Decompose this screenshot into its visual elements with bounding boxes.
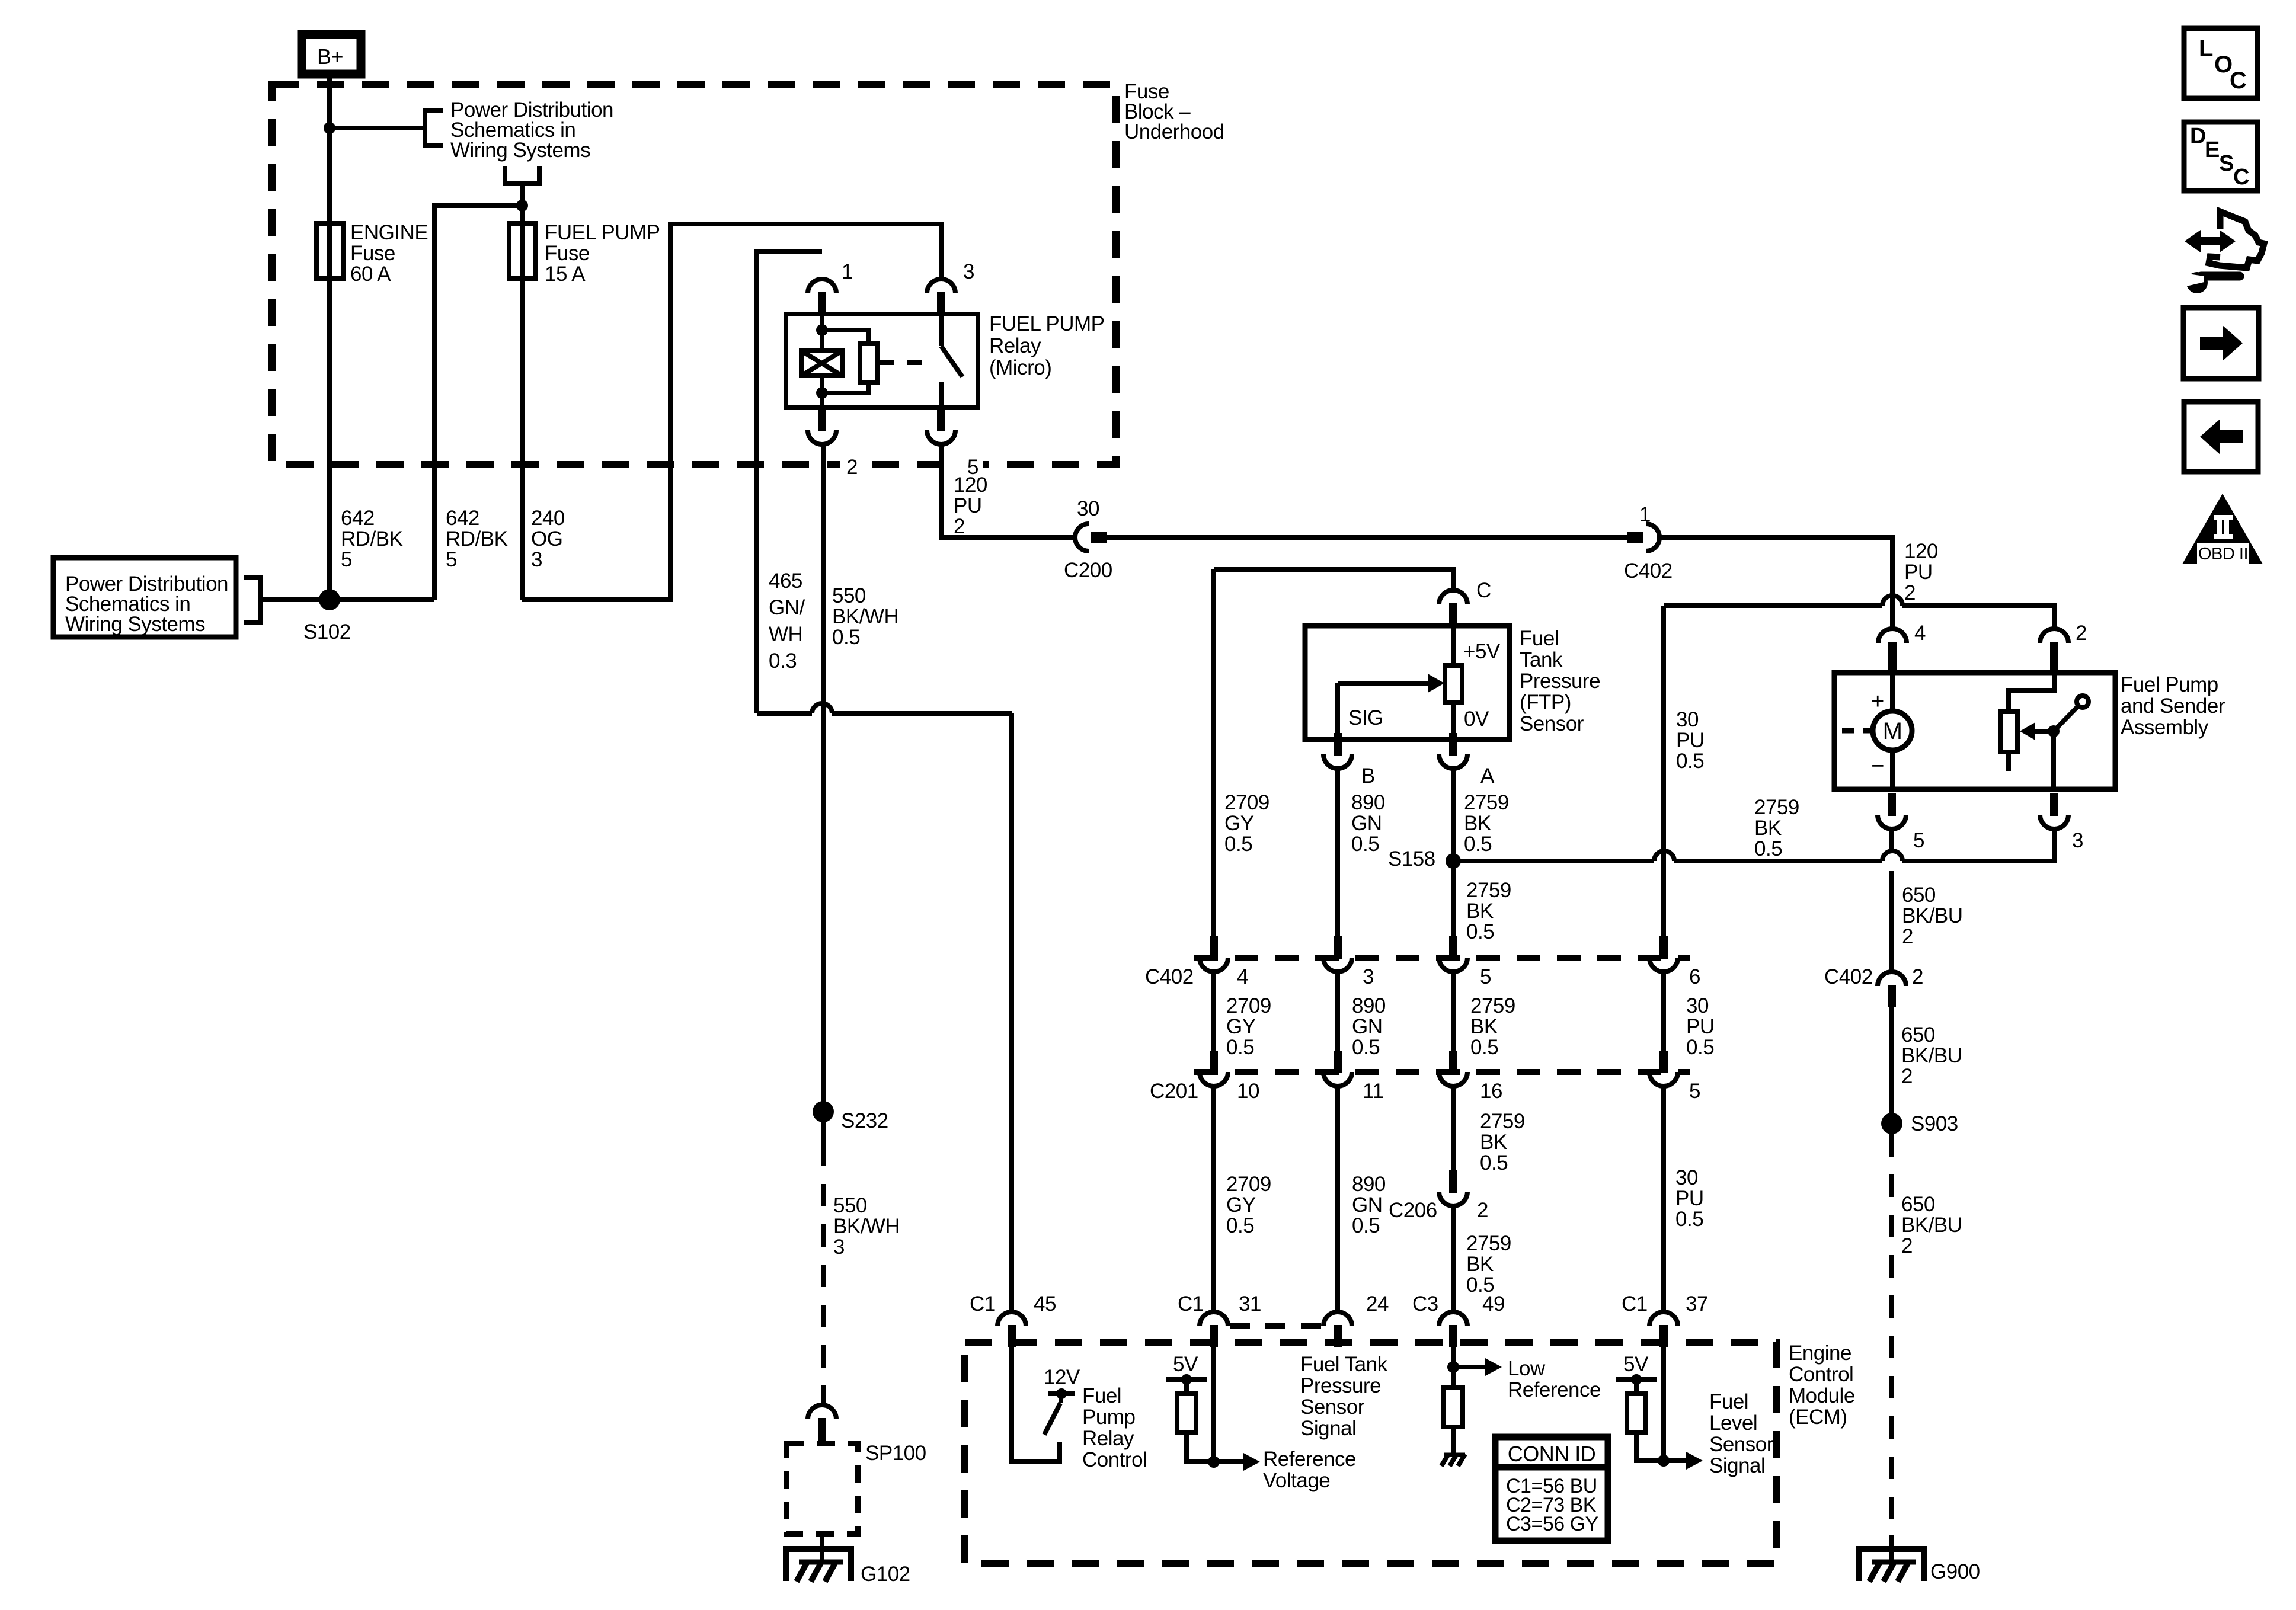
wire 2759 BK 0.5 pin A to S158 (1451, 769, 1456, 936)
wire 2759 BK to C206 (1451, 1086, 1456, 1170)
svg-text:Wiring Systems: Wiring Systems (65, 613, 205, 636)
inline connector C402 pin 1 (1627, 532, 1643, 543)
pump pin 3 connector (2050, 793, 2058, 816)
wire to FTP sensor pin C (1214, 569, 1453, 590)
svg-text:Sensor: Sensor (1709, 1433, 1774, 1456)
C402 pin 5 (1449, 936, 1457, 959)
C402 pin 6 (1659, 936, 1668, 959)
svg-text:650: 650 (1901, 1193, 1935, 1216)
svg-text:BK: BK (1466, 1253, 1494, 1276)
svg-text:0.5: 0.5 (1754, 837, 1782, 860)
wire 2709 GY to ECM C1-31 (1211, 1086, 1216, 1312)
svg-text:GY: GY (1226, 1193, 1256, 1217)
svg-text:2759: 2759 (1466, 879, 1511, 902)
svg-text:C1: C1 (970, 1292, 996, 1315)
splice S158 (1446, 853, 1461, 869)
svg-text:Assembly: Assembly (2121, 716, 2209, 739)
sender switch blade (2054, 706, 2078, 731)
svg-text:16: 16 (1480, 1080, 1502, 1103)
svg-text:650: 650 (1901, 1023, 1935, 1046)
svg-text:FUEL PUMP: FUEL PUMP (989, 312, 1105, 335)
svg-text:S232: S232 (841, 1109, 888, 1132)
svg-text:PU: PU (1676, 729, 1705, 752)
svg-text:Wiring Systems: Wiring Systems (450, 139, 590, 162)
C201 pin 16 (1449, 1051, 1457, 1073)
svg-text:30: 30 (1077, 497, 1099, 520)
relay internal resistor branch (822, 330, 869, 344)
svg-text:GN: GN (1352, 1193, 1383, 1217)
svg-text:60 A: 60 A (350, 263, 391, 286)
C402 pin 4 (1210, 936, 1218, 959)
relay pin 5 connector (937, 409, 945, 431)
inline connector C402 pin 2 (650 wire) (1878, 972, 1906, 986)
wire 650 BK/BU 2 pin5 down (1889, 829, 1894, 851)
svg-text:FUEL PUMP: FUEL PUMP (545, 221, 660, 244)
svg-text:BK: BK (1464, 812, 1491, 835)
sender resistor (2000, 712, 2017, 752)
svg-text:BK: BK (1466, 900, 1494, 923)
ECM dashed box (965, 1342, 1777, 1564)
svg-text:C402: C402 (1145, 965, 1194, 988)
svg-text:Sensor: Sensor (1520, 712, 1584, 735)
svg-text:+: + (1871, 689, 1884, 714)
S158 horizontal 2759 BK to pump pin 3 with hops (1453, 859, 1654, 863)
svg-text:5: 5 (1913, 829, 1924, 852)
svg-text:ENGINE: ENGINE (350, 221, 428, 244)
svg-text:37: 37 (1686, 1292, 1708, 1315)
svg-text:5V: 5V (1173, 1353, 1198, 1376)
svg-text:Reference: Reference (1508, 1378, 1601, 1401)
icon back arrow box (2184, 402, 2258, 472)
svg-text:BK/WH: BK/WH (833, 1215, 900, 1238)
svg-text:−: − (1871, 754, 1884, 779)
svg-text:Control: Control (1789, 1363, 1853, 1386)
svg-text:49: 49 (1482, 1292, 1505, 1315)
svg-text:0.5: 0.5 (1480, 1151, 1508, 1174)
svg-text:M: M (1883, 718, 1902, 744)
svg-text:2759: 2759 (1464, 791, 1509, 814)
svg-text:Fuel: Fuel (1082, 1384, 1121, 1407)
svg-text:2: 2 (1912, 965, 1923, 988)
fuel pump relay box (786, 314, 978, 408)
svg-text:Engine: Engine (1789, 1342, 1851, 1365)
svg-text:SIG: SIG (1348, 706, 1383, 729)
splice S102 (319, 589, 340, 610)
svg-text:3: 3 (1363, 965, 1374, 988)
svg-text:WH: WH (769, 623, 802, 646)
svg-text:GY: GY (1224, 812, 1254, 835)
svg-text:A: A (1480, 764, 1495, 788)
svg-text:Reference: Reference (1263, 1448, 1356, 1471)
svg-text:PU: PU (954, 494, 982, 517)
bracket from box (244, 578, 261, 622)
svg-text:BK: BK (1470, 1015, 1498, 1038)
svg-text:0.5: 0.5 (1352, 1214, 1380, 1237)
svg-text:2759: 2759 (1754, 796, 1799, 819)
icon LOC box (2184, 28, 2257, 98)
svg-text:S102: S102 (303, 620, 351, 644)
svg-text:C402: C402 (1824, 965, 1873, 988)
wire 2709 GY 0.5 down to C402-4 (1211, 569, 1216, 936)
wire relay pin1 to 465 GN/WH (757, 252, 822, 713)
svg-text:550: 550 (833, 1194, 867, 1217)
svg-text:C3: C3 (1412, 1292, 1438, 1315)
dashed wire 550 BK/WH 3 to SP100 (821, 1122, 826, 1144)
connector row C402 dashed body (1194, 955, 1690, 961)
svg-text:2709: 2709 (1226, 994, 1271, 1017)
svg-text:E: E (2205, 137, 2220, 162)
svg-text:0.5: 0.5 (1675, 1208, 1703, 1231)
svg-text:Low: Low (1508, 1357, 1546, 1380)
relay pin 3 connector (927, 279, 955, 293)
svg-text:890: 890 (1352, 1173, 1386, 1196)
svg-text:RD/BK: RD/BK (446, 527, 508, 550)
svg-text:2759: 2759 (1466, 1232, 1511, 1255)
chassis ground (low reference) (1444, 1453, 1465, 1457)
svg-text:OBD II: OBD II (2198, 545, 2248, 564)
svg-text:45: 45 (1034, 1292, 1056, 1315)
relay pin 1 connector (808, 279, 836, 293)
fuel pump assembly pin 2 connector (2040, 629, 2068, 643)
svg-text:B+: B+ (317, 44, 343, 69)
connector row C201 dashed body (1194, 1069, 1690, 1075)
svg-text:2: 2 (1902, 925, 1913, 948)
svg-text:3: 3 (2072, 829, 2083, 852)
inline connector C206 pin 2 (1449, 1170, 1457, 1193)
svg-text:0.5: 0.5 (1686, 1036, 1714, 1059)
wire 890 GN to ECM 24 (1335, 1086, 1340, 1312)
svg-text:BK: BK (1480, 1131, 1507, 1154)
fuse block underhood dashed box (272, 84, 1116, 465)
wire relay pin2 550 BK/WH down to S232 (821, 444, 826, 1112)
wire B+ down through ENGINE fuse (327, 78, 332, 600)
svg-text:S158: S158 (1388, 847, 1435, 870)
svg-text:Fuel: Fuel (1709, 1390, 1748, 1413)
FTP internal +5V wire (1451, 626, 1456, 665)
fuel level sensor signal arrow (1664, 1458, 1686, 1463)
svg-text:Control: Control (1082, 1448, 1147, 1471)
svg-text:GN/: GN/ (769, 596, 805, 619)
svg-text:Module: Module (1789, 1384, 1855, 1407)
FUEL PUMP fuse (520, 206, 525, 600)
wire 465 GN/WH horizontal to ECM with hop over 550 wire (757, 711, 812, 716)
svg-text:120: 120 (954, 473, 987, 497)
CONN ID table (1495, 1437, 1608, 1541)
sender wiper arrow (2035, 729, 2054, 734)
svg-text:3: 3 (531, 548, 542, 571)
svg-text:Fuel: Fuel (1520, 627, 1559, 650)
C201 pin 10 (1210, 1051, 1218, 1073)
svg-text:G900: G900 (1930, 1560, 1980, 1583)
svg-text:CONN ID: CONN ID (1508, 1442, 1596, 1466)
svg-text:550: 550 (832, 584, 866, 607)
svg-text:PU: PU (1675, 1187, 1704, 1210)
icon vehicle with double arrow and wrench (2195, 237, 2223, 245)
svg-text:GY: GY (1226, 1015, 1256, 1038)
svg-text:C1: C1 (1622, 1292, 1648, 1315)
node junction to power distribution bracket (324, 122, 335, 134)
sender branch (2009, 673, 2054, 712)
ENGINE fuse (316, 223, 343, 279)
svg-text:Pressure: Pressure (1300, 1374, 1381, 1397)
fuel pump relay control driver (1012, 1342, 1060, 1462)
svg-text:0.5: 0.5 (1464, 833, 1492, 856)
FTP pin A connector (1449, 733, 1457, 756)
inline connector C200 pin 30 (1075, 524, 1089, 551)
fuel pump assembly pin 4 connector (1878, 629, 1907, 643)
svg-text:5: 5 (341, 548, 352, 571)
svg-text:GN: GN (1351, 812, 1382, 835)
svg-text:+5V: +5V (1463, 640, 1501, 663)
svg-text:BK/BU: BK/BU (1901, 1214, 1962, 1237)
svg-text:240: 240 (531, 507, 565, 530)
ground G900 (1889, 1535, 1894, 1561)
svg-text:GN: GN (1352, 1015, 1383, 1038)
svg-text:C402: C402 (1624, 559, 1673, 582)
wire 30 PU 0.5 branch (1664, 603, 1882, 608)
svg-text:BK/BU: BK/BU (1902, 904, 1963, 927)
svg-text:L: L (2199, 36, 2213, 62)
relay actuation dashed link (878, 360, 935, 365)
svg-text:PU: PU (1686, 1015, 1715, 1038)
svg-text:PU: PU (1904, 561, 1933, 584)
svg-text:30: 30 (1676, 708, 1699, 731)
svg-text:Relay: Relay (989, 334, 1041, 357)
svg-text:Underhood: Underhood (1124, 120, 1224, 143)
svg-text:0.5: 0.5 (1226, 1214, 1254, 1237)
svg-text:Sensor: Sensor (1300, 1395, 1365, 1419)
C201 pin 11 (1334, 1051, 1342, 1073)
svg-text:465: 465 (769, 569, 802, 593)
svg-text:Pump: Pump (1082, 1406, 1135, 1429)
svg-text:BK: BK (1754, 817, 1782, 840)
ECM connector C1 pin 45 (1009, 713, 1014, 1312)
svg-text:Level: Level (1709, 1411, 1757, 1435)
svg-text:1: 1 (842, 260, 853, 283)
svg-text:2: 2 (2076, 622, 2087, 645)
svg-text:0.3: 0.3 (769, 649, 797, 673)
svg-text:BK/BU: BK/BU (1901, 1044, 1962, 1067)
svg-text:890: 890 (1351, 791, 1385, 814)
splice S903 (1881, 1113, 1902, 1134)
svg-text:0.5: 0.5 (1226, 1036, 1254, 1059)
svg-text:5: 5 (1480, 965, 1491, 988)
svg-text:G102: G102 (861, 1563, 910, 1586)
battery terminal B+ (302, 34, 361, 74)
svg-text:C206: C206 (1389, 1199, 1437, 1222)
relay switch (939, 314, 944, 346)
svg-text:2: 2 (1477, 1199, 1488, 1222)
FTP potentiometer (1445, 665, 1462, 702)
svg-text:Fuel Pump: Fuel Pump (2121, 673, 2218, 696)
wire relay pin5 120 PU 2 (941, 444, 1075, 537)
wire 650 BK/BU to S903 (1889, 1007, 1894, 1113)
svg-text:Signal: Signal (1709, 1454, 1765, 1477)
svg-text:Relay: Relay (1082, 1427, 1134, 1450)
svg-text:SP100: SP100 (865, 1442, 926, 1465)
svg-text:B: B (1361, 764, 1375, 788)
svg-text:15 A: 15 A (545, 263, 586, 286)
dashed wire 650 BK/BU to G900 (1889, 1134, 1894, 1535)
C1 dashed link 31-24 (1230, 1323, 1325, 1329)
splice S232 (813, 1101, 834, 1122)
svg-text:2709: 2709 (1226, 1173, 1271, 1196)
FTP sensor box (1305, 626, 1510, 740)
svg-text:5: 5 (446, 548, 457, 571)
svg-text:0.5: 0.5 (1470, 1036, 1498, 1059)
svg-text:890: 890 (1352, 994, 1386, 1017)
ECM connector pin 24 (1323, 1312, 1352, 1326)
splice pack SP100 connector (808, 1405, 836, 1419)
svg-text:C: C (1476, 579, 1491, 602)
svg-text:642: 642 (341, 507, 375, 530)
svg-text:4: 4 (1237, 965, 1248, 988)
reference voltage 5V pullup (1211, 1342, 1216, 1462)
FTP 0V wire (1451, 702, 1456, 740)
ECM connector C1 pin 31 (1200, 1312, 1228, 1326)
wire 240 OG 3 from fuse loop to relay pin 3 (522, 224, 941, 600)
fuel pump and sender assembly box (1834, 673, 2115, 789)
FTP SIG wire down (1335, 683, 1340, 740)
svg-text:C: C (2230, 68, 2246, 94)
svg-text:Signal: Signal (1300, 1417, 1356, 1440)
svg-text:2: 2 (1901, 1065, 1913, 1088)
FTP pin C connector (1439, 590, 1467, 604)
svg-text:0.5: 0.5 (1466, 920, 1494, 943)
svg-text:2709: 2709 (1224, 791, 1269, 814)
svg-text:C200: C200 (1064, 559, 1112, 582)
reference voltage arrow (1214, 1459, 1243, 1464)
svg-text:Tank: Tank (1520, 648, 1563, 671)
svg-text:5: 5 (1689, 1080, 1700, 1103)
svg-text:642: 642 (446, 507, 479, 530)
motor branch (1890, 673, 1895, 712)
svg-text:Fuse: Fuse (545, 242, 590, 265)
wire C402-1 to fuel pump pin 4 (1659, 537, 1892, 629)
icon DESC box (2184, 122, 2257, 191)
ECM connector C1 pin 37 (1649, 1312, 1678, 1326)
svg-text:30: 30 (1686, 994, 1709, 1017)
SP100 dashed box (786, 1443, 858, 1534)
svg-text:Fuel Tank: Fuel Tank (1300, 1353, 1388, 1376)
icon OBD II triangle (2182, 494, 2263, 564)
svg-text:RD/BK: RD/BK (341, 527, 403, 550)
svg-text:2: 2 (846, 456, 858, 479)
wire 30 PU to ECM C1-37 (1661, 1086, 1666, 1312)
svg-text:(Micro): (Micro) (989, 356, 1051, 379)
svg-text:D: D (2190, 124, 2206, 149)
svg-text:10: 10 (1237, 1080, 1259, 1103)
svg-text:2759: 2759 (1480, 1110, 1525, 1133)
svg-text:BK/WH: BK/WH (832, 605, 898, 628)
svg-text:6: 6 (1689, 965, 1700, 988)
svg-text:5V: 5V (1623, 1353, 1649, 1376)
svg-text:Pressure: Pressure (1520, 670, 1600, 693)
relay pin 2 connector (818, 409, 826, 431)
svg-text:0.5: 0.5 (1676, 750, 1704, 773)
wire 2759 BK C206 to ECM C3-49 (1451, 1206, 1456, 1312)
svg-text:11: 11 (1363, 1080, 1383, 1103)
fuel level sensor 5V pullup (1661, 1342, 1666, 1461)
svg-text:24: 24 (1366, 1292, 1389, 1315)
svg-text:4: 4 (1914, 622, 1926, 645)
relay coil (820, 314, 824, 351)
bracket below note (505, 166, 539, 184)
svg-text:0.5: 0.5 (1224, 833, 1252, 856)
svg-text:C201: C201 (1150, 1080, 1198, 1103)
svg-text:1: 1 (1639, 503, 1651, 526)
FTP wiper arrow (1338, 681, 1428, 686)
svg-text:3: 3 (963, 260, 974, 283)
svg-text:Voltage: Voltage (1263, 1469, 1330, 1492)
svg-text:650: 650 (1902, 884, 1936, 907)
svg-text:2: 2 (1904, 581, 1916, 604)
svg-text:0.5: 0.5 (832, 626, 860, 649)
svg-text:0V: 0V (1464, 708, 1489, 731)
svg-text:31: 31 (1239, 1292, 1261, 1315)
svg-text:(FTP): (FTP) (1520, 691, 1571, 714)
wire 890 GN 0.5 down to C402-3 (1335, 769, 1340, 936)
bracket to Power Distribution note (top) (425, 111, 443, 145)
node S-junction above FUEL PUMP fuse (516, 200, 528, 212)
C402 pin 3 (1334, 936, 1342, 959)
svg-text:2: 2 (1901, 1234, 1913, 1257)
icon forward arrow box (2183, 308, 2259, 379)
wires between rows (1211, 972, 1216, 1051)
svg-text:30: 30 (1675, 1166, 1698, 1189)
svg-text:120: 120 (1904, 540, 1938, 563)
FTP pin B connector (1334, 733, 1342, 756)
svg-text:OG: OG (531, 527, 562, 550)
svg-text:0.5: 0.5 (1352, 1036, 1380, 1059)
wire bracket to S102 (261, 597, 434, 602)
wire left branch 642 RD/BK (434, 206, 522, 600)
svg-text:2: 2 (954, 515, 965, 538)
svg-text:C3=56 GY: C3=56 GY (1506, 1513, 1598, 1535)
svg-text:12V: 12V (1044, 1366, 1080, 1389)
ECM connector C3 pin 49 (1439, 1312, 1467, 1326)
low reference branch (1451, 1342, 1456, 1388)
svg-text:S903: S903 (1911, 1112, 1958, 1135)
wire C200 to C402 (1107, 535, 1627, 540)
svg-text:3: 3 (833, 1235, 845, 1259)
svg-text:Fuse: Fuse (350, 242, 395, 265)
svg-text:C1: C1 (1178, 1292, 1204, 1315)
svg-text:2759: 2759 (1470, 994, 1515, 1017)
pump pin 5 connector (1888, 793, 1896, 816)
ground G102 (820, 1534, 824, 1561)
C201 pin 5 (1659, 1051, 1668, 1073)
motor M (1873, 711, 1912, 750)
left Power Distribution Schematics box (53, 558, 236, 637)
svg-text:0.5: 0.5 (1351, 833, 1379, 856)
svg-text:and Sender: and Sender (2121, 694, 2225, 718)
svg-text:C: C (2233, 165, 2249, 190)
svg-text:(ECM): (ECM) (1789, 1406, 1847, 1429)
svg-text:S: S (2219, 151, 2234, 176)
